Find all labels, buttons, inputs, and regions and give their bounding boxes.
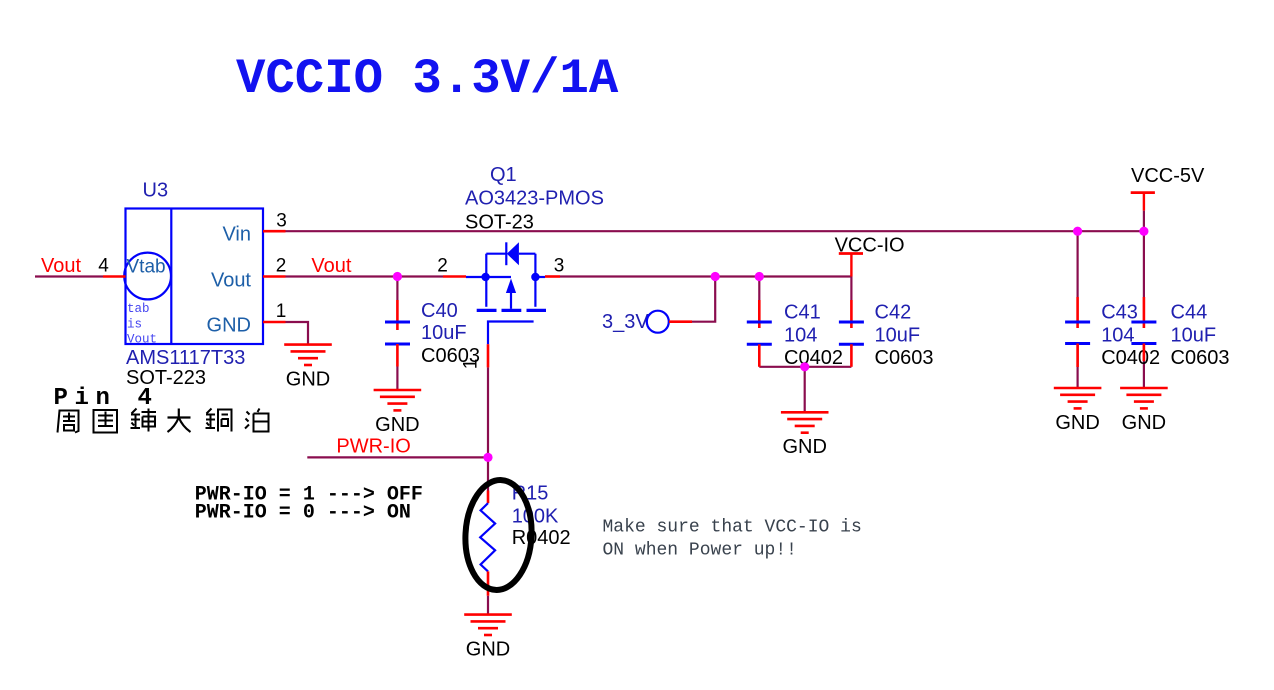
svg-text:C43: C43 bbox=[1101, 302, 1138, 324]
U3 pin 2 stub bbox=[263, 275, 286, 278]
wire Vout net (left edge to U3 pin4) bbox=[35, 275, 103, 277]
svg-text:100K: 100K bbox=[512, 505, 559, 527]
wire C44 drop bbox=[1143, 211, 1145, 297]
U3 tab-is-Vout note bbox=[127, 302, 157, 347]
wire C40 gnd link bbox=[396, 367, 398, 392]
svg-text:VCCIO 3.3V/1A: VCCIO 3.3V/1A bbox=[236, 51, 619, 107]
svg-text:PWR-IO: PWR-IO bbox=[336, 436, 410, 458]
wire Vout net (Q1 drain to C42/VCC-IO corner) bbox=[560, 275, 851, 277]
svg-text:GND: GND bbox=[375, 414, 419, 436]
junction dot (C40 tap) bbox=[393, 272, 402, 281]
wire U3 gnd pin1 bbox=[286, 322, 309, 346]
resistor R15 pin bottom bbox=[487, 571, 490, 595]
svg-text:3: 3 bbox=[276, 211, 287, 232]
annotation Chinese: 周 bbox=[58, 411, 79, 433]
wire C41/C42 gnd drop bbox=[804, 367, 806, 413]
svg-text:SOT-23: SOT-23 bbox=[465, 212, 534, 234]
Q1 pin 3 stub bbox=[545, 275, 560, 278]
svg-text:3_3V: 3_3V bbox=[602, 311, 649, 333]
wire C43 gnd link bbox=[1076, 344, 1078, 390]
svg-text:10uF: 10uF bbox=[421, 322, 467, 344]
svg-text:PWR-IO = 0 ---> ON: PWR-IO = 0 ---> ON bbox=[195, 502, 411, 525]
svg-text:2: 2 bbox=[276, 256, 287, 277]
svg-text:10uF: 10uF bbox=[1171, 324, 1217, 346]
ground GND6 (R15) bbox=[464, 615, 512, 635]
svg-text:Vout: Vout bbox=[127, 333, 157, 347]
svg-text:C0402: C0402 bbox=[1101, 347, 1160, 369]
wire C43 drop bbox=[1076, 231, 1078, 297]
U3 pin 1 stub bbox=[263, 321, 286, 324]
svg-text:104: 104 bbox=[1101, 324, 1134, 346]
Q1 pin 2 stub bbox=[443, 275, 466, 278]
svg-text:Vout: Vout bbox=[41, 255, 81, 277]
Q1 bulk arrow bbox=[506, 279, 516, 294]
ground GND1 (U3 pin1) bbox=[284, 345, 332, 365]
regulator U3 body bbox=[124, 209, 263, 345]
resistor R15 pin top bbox=[487, 491, 490, 504]
annotation Chinese: 铜 bbox=[206, 409, 232, 432]
svg-text:Pin 4: Pin 4 bbox=[54, 385, 159, 412]
junction dot (C41 tap) bbox=[755, 272, 764, 281]
svg-text:U3: U3 bbox=[143, 180, 169, 202]
annotation highlight ellipse around R15 bbox=[463, 478, 535, 591]
svg-text:GND: GND bbox=[782, 436, 826, 458]
wire C41 drop bbox=[758, 277, 760, 301]
svg-text:Vtab: Vtab bbox=[127, 257, 166, 278]
svg-text:C0603: C0603 bbox=[421, 345, 480, 367]
svg-text:GND: GND bbox=[466, 639, 510, 661]
svg-text:AO3423-PMOS: AO3423-PMOS bbox=[465, 188, 604, 210]
Q1 gate pin stub bbox=[487, 344, 490, 367]
junction dot (VCC-5V / C44 tap) bbox=[1139, 227, 1148, 236]
svg-text:4: 4 bbox=[98, 256, 109, 277]
Q1 drain junction dot bbox=[531, 273, 539, 281]
Q1 source junction dot bbox=[481, 273, 489, 281]
capacitor C42 bbox=[850, 300, 853, 328]
annotation Chinese: 铺 bbox=[131, 409, 157, 432]
svg-text:ON when Power up!!: ON when Power up!! bbox=[603, 540, 797, 560]
junction dot (C41/C42 gnd) bbox=[800, 362, 809, 371]
svg-text:C44: C44 bbox=[1171, 302, 1208, 324]
U3 pin 4 stub bbox=[103, 275, 126, 278]
capacitor C40 bbox=[396, 300, 399, 330]
Q1 channel dashes bbox=[477, 309, 546, 312]
svg-text:AMS1117T33: AMS1117T33 bbox=[126, 347, 245, 369]
svg-text:R0402: R0402 bbox=[512, 527, 571, 549]
ground GND5 (C44) bbox=[1120, 388, 1168, 408]
annotation Chinese: 围 bbox=[94, 410, 118, 433]
svg-text:is: is bbox=[127, 317, 142, 331]
wire PWR-IO net bbox=[307, 456, 488, 458]
svg-text:VCC-5V: VCC-5V bbox=[1131, 165, 1205, 187]
wire C42 drop bbox=[850, 277, 852, 301]
wire C44 gnd link bbox=[1143, 344, 1145, 390]
U3 pin 3 stub bbox=[263, 230, 286, 233]
wire Vin net (U3 pin3 to VCC-5V drop) bbox=[286, 230, 1144, 232]
svg-text:10uF: 10uF bbox=[875, 324, 921, 346]
svg-text:GND: GND bbox=[286, 369, 330, 391]
Q1 gate bracket bbox=[488, 322, 534, 345]
capacitor C44 bbox=[1143, 297, 1146, 328]
svg-text:C42: C42 bbox=[875, 302, 912, 324]
svg-text:GND: GND bbox=[1122, 412, 1166, 434]
junction dot (3_3V riser) bbox=[711, 272, 720, 281]
annotation Chinese: 大 bbox=[168, 409, 191, 433]
svg-text:Vout: Vout bbox=[311, 255, 351, 277]
svg-text:GND: GND bbox=[207, 315, 251, 337]
svg-text:C41: C41 bbox=[784, 302, 821, 324]
svg-text:Vin: Vin bbox=[222, 223, 251, 245]
resistor R15 zigzag bbox=[480, 503, 495, 571]
svg-text:2: 2 bbox=[437, 256, 448, 277]
capacitor C43 bbox=[1076, 297, 1079, 328]
svg-text:Make sure that VCC-IO is: Make sure that VCC-IO is bbox=[603, 518, 862, 538]
Q1 body diode bbox=[507, 242, 519, 265]
svg-text:tab: tab bbox=[127, 302, 150, 316]
capacitor C41 bbox=[758, 300, 761, 328]
wire 3_3V riser bbox=[692, 277, 715, 322]
wire C40 drop bbox=[396, 277, 398, 301]
svg-text:Q1: Q1 bbox=[490, 164, 517, 186]
wire C41-C42 bottom link bbox=[759, 366, 851, 368]
junction dot (PWR-IO / R15) bbox=[483, 453, 492, 462]
svg-text:Vout: Vout bbox=[211, 270, 251, 292]
annotation Chinese: 泊 bbox=[245, 409, 269, 432]
svg-text:C0603: C0603 bbox=[875, 347, 934, 369]
Q1 PMOS symbol bbox=[466, 242, 545, 308]
svg-text:104: 104 bbox=[784, 324, 817, 346]
wire Q1 gate to R15 bbox=[487, 367, 489, 490]
wire Vout net (U3 pin2 to Q1) bbox=[286, 275, 444, 277]
svg-text:1: 1 bbox=[276, 301, 287, 322]
svg-text:C40: C40 bbox=[421, 300, 458, 322]
svg-text:3: 3 bbox=[554, 256, 565, 277]
ground GND2 (C40) bbox=[374, 390, 422, 410]
ground GND3 (C41/C42) bbox=[781, 412, 829, 432]
svg-text:GND: GND bbox=[1055, 412, 1099, 434]
wire R15 to GND bbox=[487, 596, 489, 616]
ground GND4 (C43) bbox=[1054, 388, 1102, 408]
svg-text:C0603: C0603 bbox=[1171, 347, 1230, 369]
svg-text:C0402: C0402 bbox=[784, 347, 843, 369]
junction dot (C43 tap) bbox=[1073, 227, 1082, 236]
